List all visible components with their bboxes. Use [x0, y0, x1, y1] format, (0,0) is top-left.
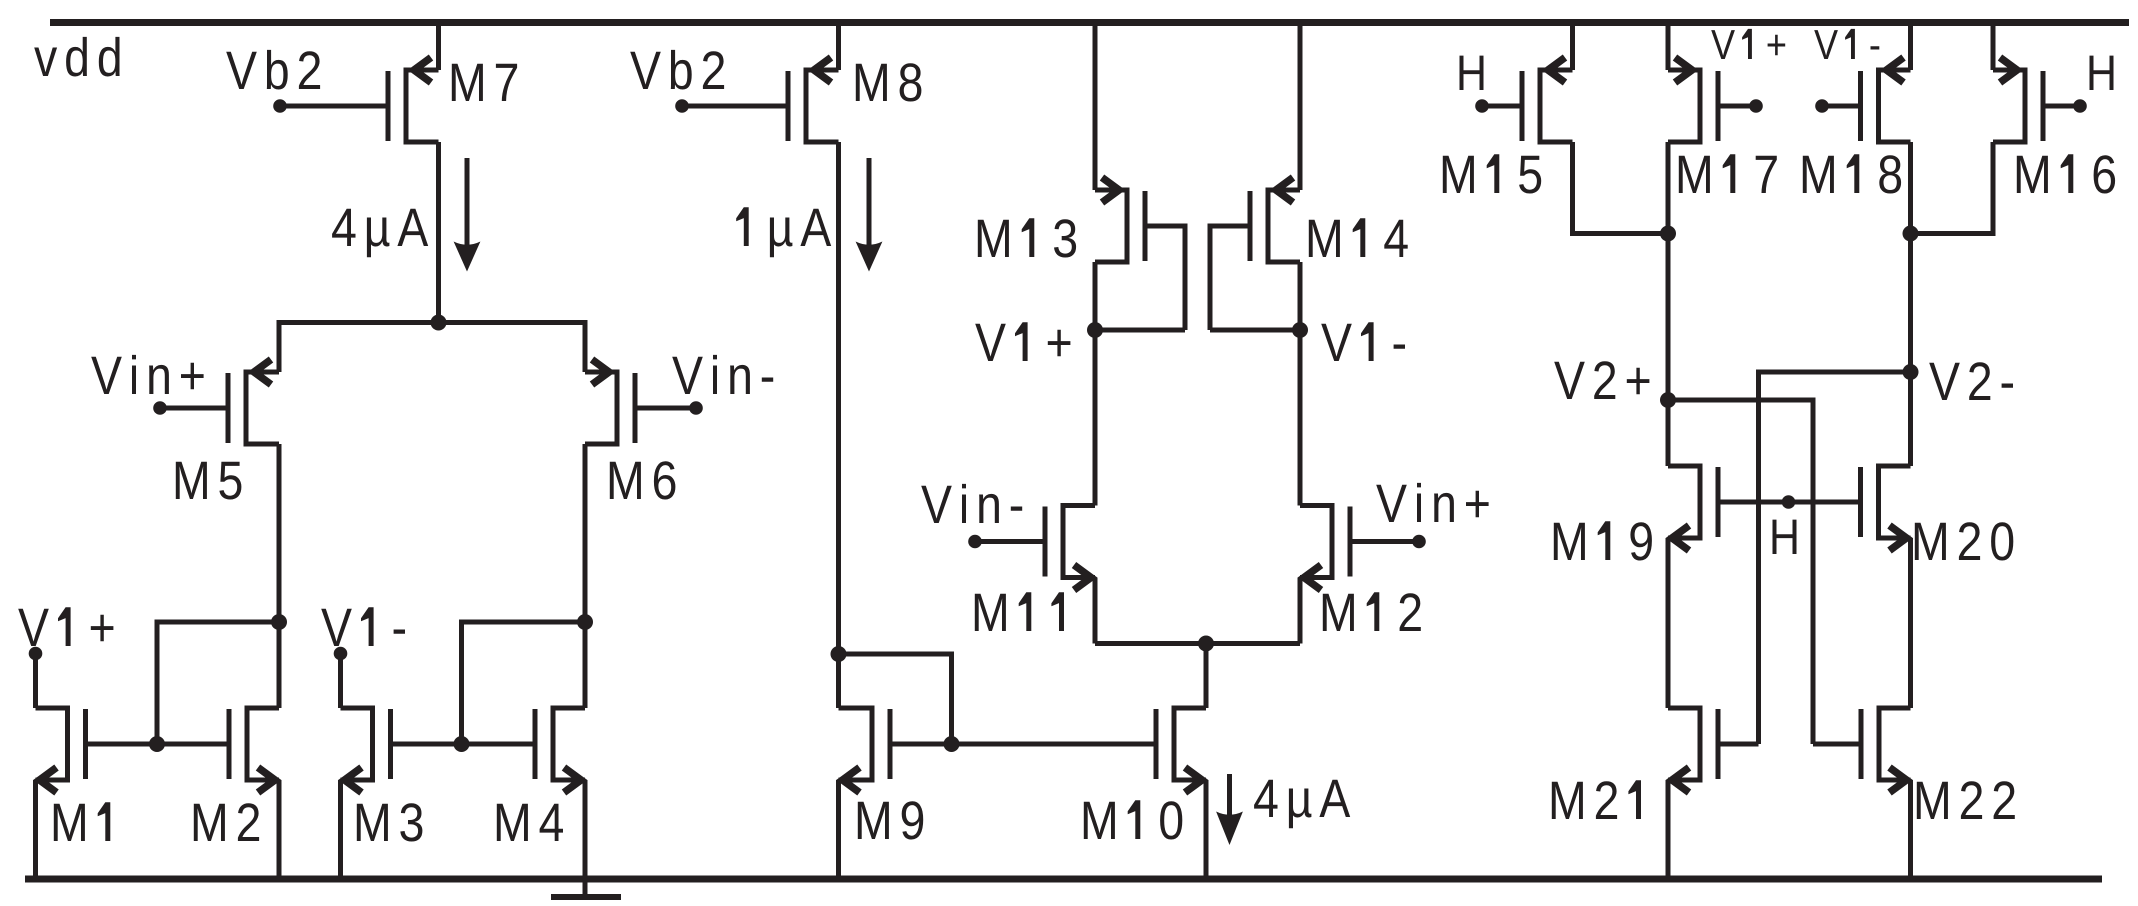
wire gate junction up to drain node [462, 622, 586, 744]
wire M18 source to vdd [1908, 26, 1913, 70]
wire M6 drain to node V1- side [583, 444, 588, 622]
wire node to M4 drain [583, 622, 588, 708]
label H (M15 gate) [1460, 56, 1484, 90]
transistor M11 (NMOS) [1045, 506, 1095, 591]
transistor M22 (NMOS) [1861, 708, 1911, 793]
wire M12 source down to tail wire [1298, 578, 1303, 644]
wire M20 source to M22 drain [1908, 538, 1913, 708]
transistor M14 (PMOS) [1250, 178, 1300, 263]
power rail vdd [50, 19, 2129, 26]
wire Vb2 to M7 gate [280, 104, 388, 109]
label 4uA (M10 branch) [1254, 780, 1350, 828]
transistor M1 (NMOS) [36, 708, 86, 793]
transistor M12 (NMOS) [1300, 506, 1350, 591]
node H (M19/M20 gate net) [1782, 495, 1796, 509]
node V1- terminal (left) [334, 647, 348, 661]
label vdd net [34, 37, 119, 77]
node V1+ (middle) [1087, 322, 1103, 338]
node Vb2 (middle) [675, 99, 689, 113]
wire M19 source to M21 drain [1666, 538, 1671, 708]
label 1uA (M8 branch) [736, 207, 831, 257]
ground rail [25, 876, 2102, 883]
wire M17 drain down [1666, 142, 1671, 234]
node M6/M4 drain (V1- side) [577, 614, 593, 630]
ground symbol [551, 894, 621, 900]
label M6 [610, 461, 676, 499]
label M3 [357, 803, 423, 841]
wire M6 gate to Vin- [635, 406, 696, 411]
node M3/M4 gate junction [454, 736, 470, 752]
node V1- (middle) [1292, 322, 1308, 338]
node H (M16 gate) [2073, 99, 2087, 113]
transistor M4 (NMOS) [535, 708, 585, 793]
wire M18 drain down [1908, 142, 1913, 234]
label M19 [1554, 521, 1652, 560]
node M15/M17 drains [1660, 226, 1676, 242]
wire M11 source down to tail wire [1093, 578, 1098, 644]
wire V1- to M18 gate [1822, 104, 1860, 109]
node Vin- (left) [689, 401, 703, 415]
label M12 [1323, 592, 1421, 631]
label V1+ (left) [18, 607, 113, 646]
transistor M2 (NMOS) [229, 708, 279, 793]
node V1+ terminal (left) [29, 647, 43, 661]
label M7 [452, 64, 517, 101]
label Vin- (middle) [921, 484, 1022, 523]
node V2- [1903, 364, 1919, 380]
label M21 [1552, 780, 1641, 819]
label M20 [1915, 522, 2014, 560]
wire M10 drain to tail node [1204, 644, 1209, 709]
wire node V1- down to M12 drain [1298, 330, 1303, 506]
transistor M20 (NMOS) [1861, 466, 1911, 551]
wire Vin- to M11 gate [975, 539, 1045, 544]
wire V2+ cross-couple to M22 gate [1668, 400, 1813, 744]
wire M16 gate to H [2043, 104, 2080, 109]
node M11/M12 tail junction [1198, 636, 1214, 652]
node M16/M18 drains [1903, 226, 1919, 242]
wire M16 source to vdd [1991, 26, 1996, 70]
label Vb2 (left) [226, 50, 320, 90]
wire M9 gate-drain diode connection [839, 654, 952, 744]
wire drains node to V2+ [1666, 234, 1671, 401]
transistor M21 (NMOS) [1668, 708, 1718, 793]
node M1/M2 gate junction [149, 736, 165, 752]
wire M17 gate to V1+ [1718, 104, 1756, 109]
label V1+ (right) [1711, 29, 1785, 59]
label V1+ (middle) [975, 322, 1070, 361]
current arrow 4uA (M10 branch) [1216, 774, 1243, 845]
label M13 [978, 218, 1076, 257]
label M9 [858, 801, 923, 839]
wire M9-M10 gate net [890, 742, 1156, 747]
wire M21 source to ground [1666, 780, 1671, 876]
node M8 drain / M9 diode node [831, 646, 847, 662]
wire tail node to M5/M6 sources [279, 323, 585, 373]
label H (M16 gate) [2090, 56, 2114, 90]
wire M3 source to ground [338, 780, 343, 876]
transistor M8 (PMOS) [788, 58, 839, 143]
wire M4 source to ground [583, 780, 588, 897]
transistor M19 (NMOS) [1668, 466, 1718, 551]
label M8 [856, 63, 922, 101]
label M2 [194, 803, 259, 841]
label Vin+ (middle) [1376, 483, 1488, 522]
node Vb2 (left) [273, 99, 287, 113]
wire M13 gate to node V1+ [1145, 226, 1185, 330]
wire M14 source to vdd [1298, 26, 1303, 190]
node V2+ [1660, 392, 1676, 408]
label M22 [1917, 781, 2015, 819]
wire gate junction up to drain node [157, 622, 279, 744]
node Vin+ (middle) [1412, 535, 1426, 549]
transistor M17 (PMOS) [1668, 58, 1718, 143]
node H (M15 gate) [1475, 99, 1489, 113]
wire M3-M4 gate net [391, 742, 536, 747]
wire node V1+ down to M11 drain [1093, 330, 1098, 506]
wire M13 source to vdd [1093, 26, 1098, 190]
label M16 [2017, 154, 2115, 193]
wire node V1+ to M13 gate leg [1095, 328, 1185, 333]
label Vin- (left) [672, 355, 773, 394]
wire V2+ to M19 drain [1666, 400, 1671, 466]
wire M2 source to ground [277, 780, 282, 876]
transistor M5 (PMOS) [228, 360, 279, 445]
wire M1-M2 gate net [86, 742, 230, 747]
label V2+ [1554, 361, 1649, 399]
transistor M3 (NMOS) [341, 708, 391, 793]
wire M10 source to ground [1204, 780, 1209, 876]
node tail of M5/M6 [431, 315, 447, 331]
wire Vin+ to M5 gate [160, 406, 228, 411]
label M14 [1309, 218, 1408, 257]
transistor M18 (PMOS) [1861, 58, 1911, 143]
label V1- (left) [321, 607, 405, 646]
label M10 [1084, 800, 1183, 839]
wire node to M2 drain [277, 622, 282, 708]
label M17 [1679, 154, 1777, 193]
wire M1 source to ground [33, 780, 38, 876]
wire M19-M20 gate net [1718, 500, 1861, 505]
transistor M13 (PMOS) [1095, 178, 1145, 263]
transistor M6 (PMOS) [585, 360, 635, 445]
transistor M10 (NMOS) [1156, 708, 1206, 793]
wire M14 drain to node V1- [1298, 262, 1303, 330]
wire V1- terminal to M3 drain [338, 654, 343, 709]
transistor M15 (PMOS) [1522, 58, 1573, 143]
wire M5 drain to node V1+ [277, 444, 282, 622]
wire Vb2 to M8 gate [682, 104, 788, 109]
wire M15 source to vdd [1570, 26, 1575, 70]
label M5 [176, 462, 242, 500]
label 4uA (M7 branch) [332, 209, 428, 257]
wire M22 source to ground [1908, 780, 1913, 876]
label Vin+ (left) [91, 355, 203, 394]
wire M9 source to ground [836, 780, 841, 876]
wire M15 drain to V2+ branch node [1573, 142, 1669, 234]
wire drains node to V2- [1908, 234, 1913, 373]
node V1- (right) [1815, 99, 1829, 113]
transistor M16 (PMOS) [1993, 58, 2043, 143]
transistor M7 (PMOS) [388, 58, 439, 143]
current arrow 4uA (M7 branch) [454, 158, 481, 272]
wire M16 drain to M18 drain node [1911, 142, 1994, 234]
wire M8 drain down to M9 node [836, 142, 841, 654]
node M5/M2 drain (V1+ side) [271, 614, 287, 630]
label M11 [975, 592, 1064, 631]
wire M21 gate lead to cross-couple [1718, 742, 1759, 747]
label V1- (middle) [1321, 322, 1405, 361]
wire M7 source to vdd [436, 26, 441, 70]
node Vin+ (left) [153, 401, 167, 415]
wire H to M15 gate [1482, 104, 1522, 109]
wire cross-couple to M22 gate lead [1813, 742, 1861, 747]
wire V1+ terminal to M1 drain [33, 654, 38, 709]
label M4 [497, 804, 563, 841]
wire M14 gate to node V1- [1210, 226, 1250, 330]
transistor M9 (NMOS) [839, 708, 891, 793]
wire node to M9 drain [836, 654, 841, 708]
node Vin- (middle) [968, 535, 982, 549]
label V1- (right) [1814, 29, 1879, 59]
wire M8 source to vdd [836, 26, 841, 70]
node V1+ (right) [1749, 99, 1763, 113]
label M15 [1443, 154, 1541, 193]
wire node V1- to M14 gate leg [1210, 328, 1300, 333]
wire M20 drain to V2- [1908, 372, 1913, 466]
label M18 [1803, 154, 1901, 193]
label V2- [1929, 362, 2013, 400]
wire M7 drain to tail node [436, 142, 441, 323]
wire M12 gate to Vin+ [1350, 539, 1419, 544]
wire V2- cross-couple to M21 gate [1759, 372, 1911, 744]
node M9/M10 gate junction [944, 736, 960, 752]
label H (M19/M20 gate net) [1773, 520, 1797, 554]
wire M17 source to vdd [1666, 26, 1671, 70]
current arrow 1uA (M8 branch) [856, 158, 883, 272]
label M1 [54, 802, 111, 841]
wire M11/M12 tail [1095, 641, 1300, 646]
wire M13 drain to node V1+ [1093, 262, 1098, 330]
label Vb2 (middle) [630, 50, 724, 90]
